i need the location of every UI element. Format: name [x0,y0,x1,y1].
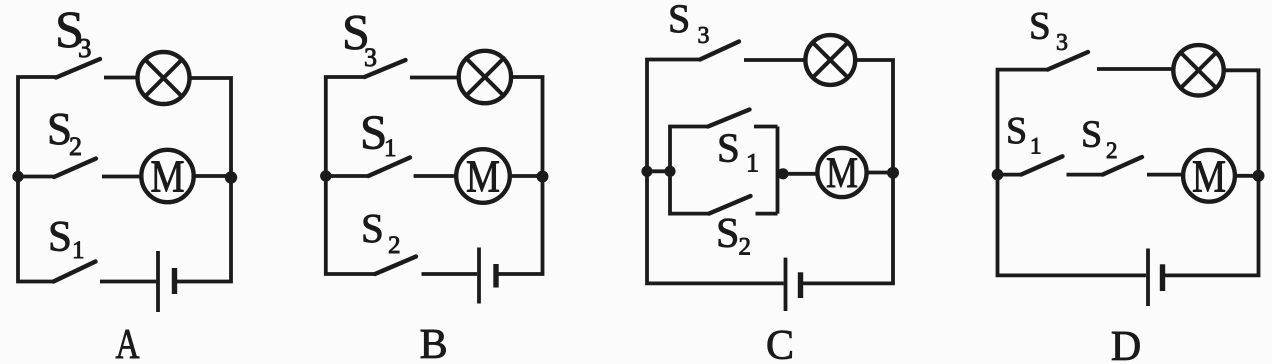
svg-text:3: 3 [1056,30,1068,56]
node: D left junction dot [992,169,1004,181]
svg-text:S: S [716,211,739,257]
wire: motor to right rail [867,171,893,175]
battery (B): long plate [477,248,481,304]
battery (A): short thick plate [172,268,177,294]
node: C outer-right junction dot [887,167,899,179]
motor M (B middle branch) [456,149,510,203]
wire: lamp to right rail, B right rail, bottom-right segment [497,77,543,274]
svg-text:S: S [1081,114,1102,156]
svg-text:S: S [48,214,72,261]
svg-text:M: M [826,150,858,197]
battery (D): long plate [1146,249,1150,307]
lamp L (C top branch) [805,35,855,85]
switch S2 blade (B bottom branch) [375,257,416,275]
switch S3 blade (B top branch) [365,60,406,77]
switch S1 blade (A bottom branch) [54,262,96,282]
svg-text:A: A [116,322,141,364]
switch S1 blade (D middle branch) [1021,156,1063,174]
wire: lamp to right rail, D right rail, bottom-right segment [1163,70,1259,275]
wire: S1 to battery [100,280,156,284]
svg-text:1: 1 [1030,134,1042,159]
svg-text:M: M [466,151,500,202]
node: B left junction dot [320,170,331,181]
wire: B left rail + bottom-left segment [326,77,375,274]
battery (D): short thick plate [1160,264,1165,291]
wire: S1 to motor [414,174,456,178]
svg-text:D: D [1111,324,1141,364]
svg-text:2: 2 [739,234,752,261]
switch S2 blade (C lower parallel branch) [709,196,751,214]
wire: S3 to lamp [104,76,137,80]
wire: between S1 and S2 [1067,173,1103,177]
switch S2 blade (A middle branch) [54,159,96,178]
svg-text:S: S [361,205,384,251]
switch S1 blade (B middle branch) [368,158,410,177]
wire: parallel block left side [670,127,709,214]
wire: parallel block right side [776,127,780,214]
wire: motor to right rail [1236,174,1259,178]
battery (A): long plate [156,251,160,312]
battery (C): long plate [784,258,788,311]
wire: B middle branch left segment [326,174,369,178]
wire: S3 to lamp [744,58,805,62]
svg-text:2: 2 [1106,138,1118,163]
wire: D middle branch left segment [998,173,1022,177]
svg-text:2: 2 [388,232,401,259]
svg-text:1: 1 [384,135,397,162]
motor M (D middle branch) [1183,150,1235,202]
wire: S2 right contact [756,212,778,216]
svg-text:C: C [766,323,794,364]
wire: S2 to battery [422,272,478,276]
wire: S2 to motor [102,175,140,179]
switch S3 blade (D top branch) [1048,52,1089,70]
svg-text:1: 1 [746,149,759,178]
svg-text:3: 3 [78,33,92,63]
wire: lamp to right rail, C right rail, bottom-right segment [801,60,893,283]
wire: C left rail + bottom-left segment to battery [647,60,784,284]
wire: A left rail + bottom-left segment [18,77,56,282]
lamp L (D top branch) [1173,45,1223,95]
wire: motor to right rail [510,174,543,178]
wire: S3 to lamp [410,76,458,80]
node: C parallel-block right dot [777,168,788,179]
node: A right junction dot [225,171,237,183]
svg-text:B: B [420,322,448,364]
svg-text:1: 1 [72,237,85,264]
wire: motor to right rail [195,174,231,178]
wire: S2 to motor [1147,173,1182,177]
lamp L (A top branch) [138,52,190,104]
svg-text:M: M [1192,150,1226,201]
svg-text:S: S [1006,110,1027,152]
svg-text:S: S [668,0,690,41]
switch S2 blade (D middle branch) [1103,157,1143,175]
wire: S3 to lamp [1097,67,1173,71]
switch S1 blade (C upper parallel branch) [708,110,750,127]
node: C parallel-block left dot [664,166,675,177]
lamp L (B top branch) [459,51,511,103]
svg-text:3: 3 [364,43,377,72]
motor M (C middle branch) [817,148,866,197]
wire: lamp to right rail, A right rail, bottom-right segment [175,78,232,282]
svg-text:M: M [151,151,185,202]
wire: D left rail + bottom-left segment to battery [998,70,1147,276]
switch S3 blade (A top branch) [56,59,100,78]
wire: C stub from left rail to parallel block [647,169,670,173]
wire: parallel block to motor [778,172,818,176]
battery (C): short thick plate [798,272,803,298]
node: A left junction dot [12,171,23,182]
svg-text:2: 2 [69,132,82,161]
node: B right junction dot [537,171,549,183]
wire: A middle branch left segment [18,175,54,179]
svg-text:S: S [717,125,740,171]
svg-text:3: 3 [698,23,710,49]
node: C outer-left junction dot [641,166,652,177]
node: D right junction dot [1253,170,1265,182]
switch S3 blade (C top branch) [700,42,739,60]
battery (B): short thick plate [493,264,498,288]
motor M (A middle branch) [141,150,193,202]
svg-text:S: S [1029,5,1051,48]
wire: S1 right contact [754,125,778,129]
